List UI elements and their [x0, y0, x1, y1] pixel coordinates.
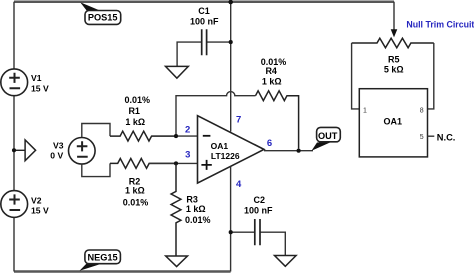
svg-text:100 nF: 100 nF — [190, 16, 219, 26]
svg-text:R4: R4 — [265, 66, 277, 76]
voltage source V2 — [1, 191, 28, 218]
svg-text:1 kΩ: 1 kΩ — [125, 186, 145, 196]
svg-text:1 kΩ: 1 kΩ — [186, 204, 206, 214]
ground C1 — [166, 66, 189, 78]
wire wiper drop — [393, 2, 395, 31]
svg-text:5: 5 — [420, 134, 424, 141]
ground C2 — [275, 256, 297, 267]
svg-text:OA1: OA1 — [211, 141, 229, 151]
svg-text:4: 4 — [236, 179, 242, 190]
resistor R1 — [110, 131, 176, 141]
svg-text:100 nF: 100 nF — [244, 205, 273, 215]
value R5 — [384, 55, 404, 75]
value R4 — [261, 57, 287, 86]
svg-text:R3: R3 — [186, 194, 198, 204]
label OUT — [312, 127, 341, 150]
svg-text:R5: R5 — [388, 55, 400, 65]
svg-text:R1: R1 — [128, 106, 140, 116]
junction C2 — [229, 230, 233, 234]
capacitor C2 — [230, 219, 285, 255]
wire pin4 supply — [230, 167, 232, 272]
svg-text:V3: V3 — [53, 140, 64, 150]
svg-text:OUT: OUT — [318, 131, 338, 141]
value C1 — [190, 6, 219, 26]
wire R1 to pin2 — [152, 135, 198, 137]
junction pin2 node — [174, 134, 178, 138]
value V1 — [31, 73, 49, 93]
svg-text:1 kΩ: 1 kΩ — [125, 117, 145, 127]
svg-text:6: 6 — [267, 138, 272, 149]
wiper arrowhead — [391, 29, 398, 37]
svg-text:15 V: 15 V — [31, 84, 49, 94]
label POS15 — [80, 2, 121, 24]
value V3 — [50, 140, 63, 160]
wire output — [264, 150, 313, 152]
value C2 — [244, 195, 273, 216]
svg-text:Null Trim Circuit: Null Trim Circuit — [406, 20, 474, 30]
wire V3 top loop — [82, 124, 110, 138]
value V2 — [31, 195, 49, 215]
wire NEG15 bottom rail — [14, 270, 231, 273]
svg-text:NEG15: NEG15 — [88, 252, 118, 262]
svg-text:5 kΩ: 5 kΩ — [384, 64, 404, 74]
junction left rail — [12, 148, 16, 152]
potentiometer R5 — [352, 38, 434, 48]
svg-text:LT1226: LT1226 — [211, 151, 240, 161]
wire pin7 supply — [230, 2, 232, 132]
svg-text:8: 8 — [420, 107, 424, 114]
svg-text:1 kΩ: 1 kΩ — [262, 76, 282, 86]
svg-text:POS15: POS15 — [88, 13, 118, 23]
resistor R2 — [110, 159, 176, 169]
wire pin5 — [428, 135, 435, 137]
svg-text:N.C.: N.C. — [437, 132, 456, 142]
svg-text:7: 7 — [236, 114, 241, 125]
junction pin3 node — [174, 161, 178, 165]
svg-text:2: 2 — [185, 124, 190, 135]
wire R2 to pin3 — [149, 162, 197, 164]
svg-text:0.01%: 0.01% — [185, 215, 211, 225]
svg-text:1: 1 — [363, 107, 367, 114]
wire left rail — [13, 2, 15, 272]
voltage source V1 — [1, 69, 28, 96]
op-amp OA1 — [198, 116, 265, 183]
capacitor C1 — [177, 29, 231, 66]
op-amp package OA1 box — [359, 89, 427, 157]
wire V3 bottom loop — [82, 163, 110, 176]
svg-text:OA1: OA1 — [384, 116, 403, 126]
wire feedback — [176, 92, 256, 137]
svg-text:C2: C2 — [254, 195, 266, 205]
svg-text:0 V: 0 V — [50, 151, 63, 161]
value R1 — [125, 95, 151, 127]
svg-text:0.01%: 0.01% — [125, 95, 151, 105]
value R3 — [185, 194, 211, 224]
svg-text:15 V: 15 V — [31, 206, 49, 216]
svg-text:3: 3 — [185, 149, 190, 160]
wire POS15 top rail — [14, 0, 394, 3]
junction output — [297, 149, 301, 153]
value R2 — [123, 176, 149, 207]
voltage source V3 — [69, 138, 96, 165]
junction top rail — [228, 0, 233, 4]
junction C1 — [229, 40, 233, 44]
svg-text:V1: V1 — [31, 73, 42, 83]
ground R3 — [166, 256, 188, 267]
wire R5 right to pin8 — [428, 43, 434, 109]
label NEG15 — [80, 250, 121, 271]
svg-text:C1: C1 — [198, 6, 210, 16]
svg-text:V2: V2 — [31, 195, 42, 205]
node marker left rail — [14, 140, 36, 161]
resistor R3 — [171, 163, 181, 256]
svg-text:0.01%: 0.01% — [123, 198, 149, 208]
wire R5 left to pin1 — [352, 43, 360, 109]
resistor R4 — [256, 91, 299, 149]
